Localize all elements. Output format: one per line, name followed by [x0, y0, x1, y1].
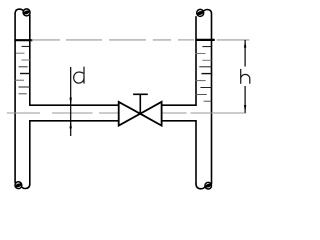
left standpipe top break curl: [15, 9, 30, 16]
right standpipe water surface: [195, 39, 214, 41]
dimension h line lower segment: [244, 86, 246, 113]
valve V body right triangle: [140, 102, 161, 126]
left standpipe water surface: [14, 39, 32, 41]
dimension h bottom arrowhead: [244, 105, 246, 113]
left standpipe liquid hatch ticks: [15, 46, 31, 93]
pipe centerline: [7, 112, 247, 114]
valve V body left triangle: [119, 102, 141, 126]
right standpipe left wall upper segment: [195, 16, 197, 106]
dimension h top arrowhead: [244, 40, 246, 48]
right standpipe liquid hatch ticks: [196, 47, 213, 102]
free surface level line: [32, 39, 250, 41]
dimension label d: [74, 67, 84, 84]
pipe bottom wall left segment: [29, 120, 119, 122]
dimension d lower arrowhead: [70, 121, 72, 129]
valve V handle bar: [133, 93, 148, 95]
dimension d extension line: [70, 67, 72, 136]
pipe top wall right segment: [161, 104, 196, 106]
dimension h line upper segment: [244, 40, 246, 67]
right standpipe top break curl: [197, 9, 212, 16]
left standpipe bottom break curl: [15, 182, 30, 189]
dimension label h: [241, 69, 250, 84]
valve V stem: [139, 94, 141, 113]
left standpipe left wall: [14, 13, 16, 184]
right standpipe right wall: [211, 13, 213, 185]
left standpipe right wall upper segment: [29, 14, 31, 106]
right standpipe bottom break curl: [196, 182, 212, 189]
pipe bottom wall right segment: [161, 120, 196, 122]
right standpipe left wall lower segment: [195, 120, 197, 184]
pipe top wall left segment: [29, 104, 119, 106]
left standpipe right wall lower segment: [29, 120, 31, 185]
dimension d upper arrowhead: [70, 98, 72, 106]
